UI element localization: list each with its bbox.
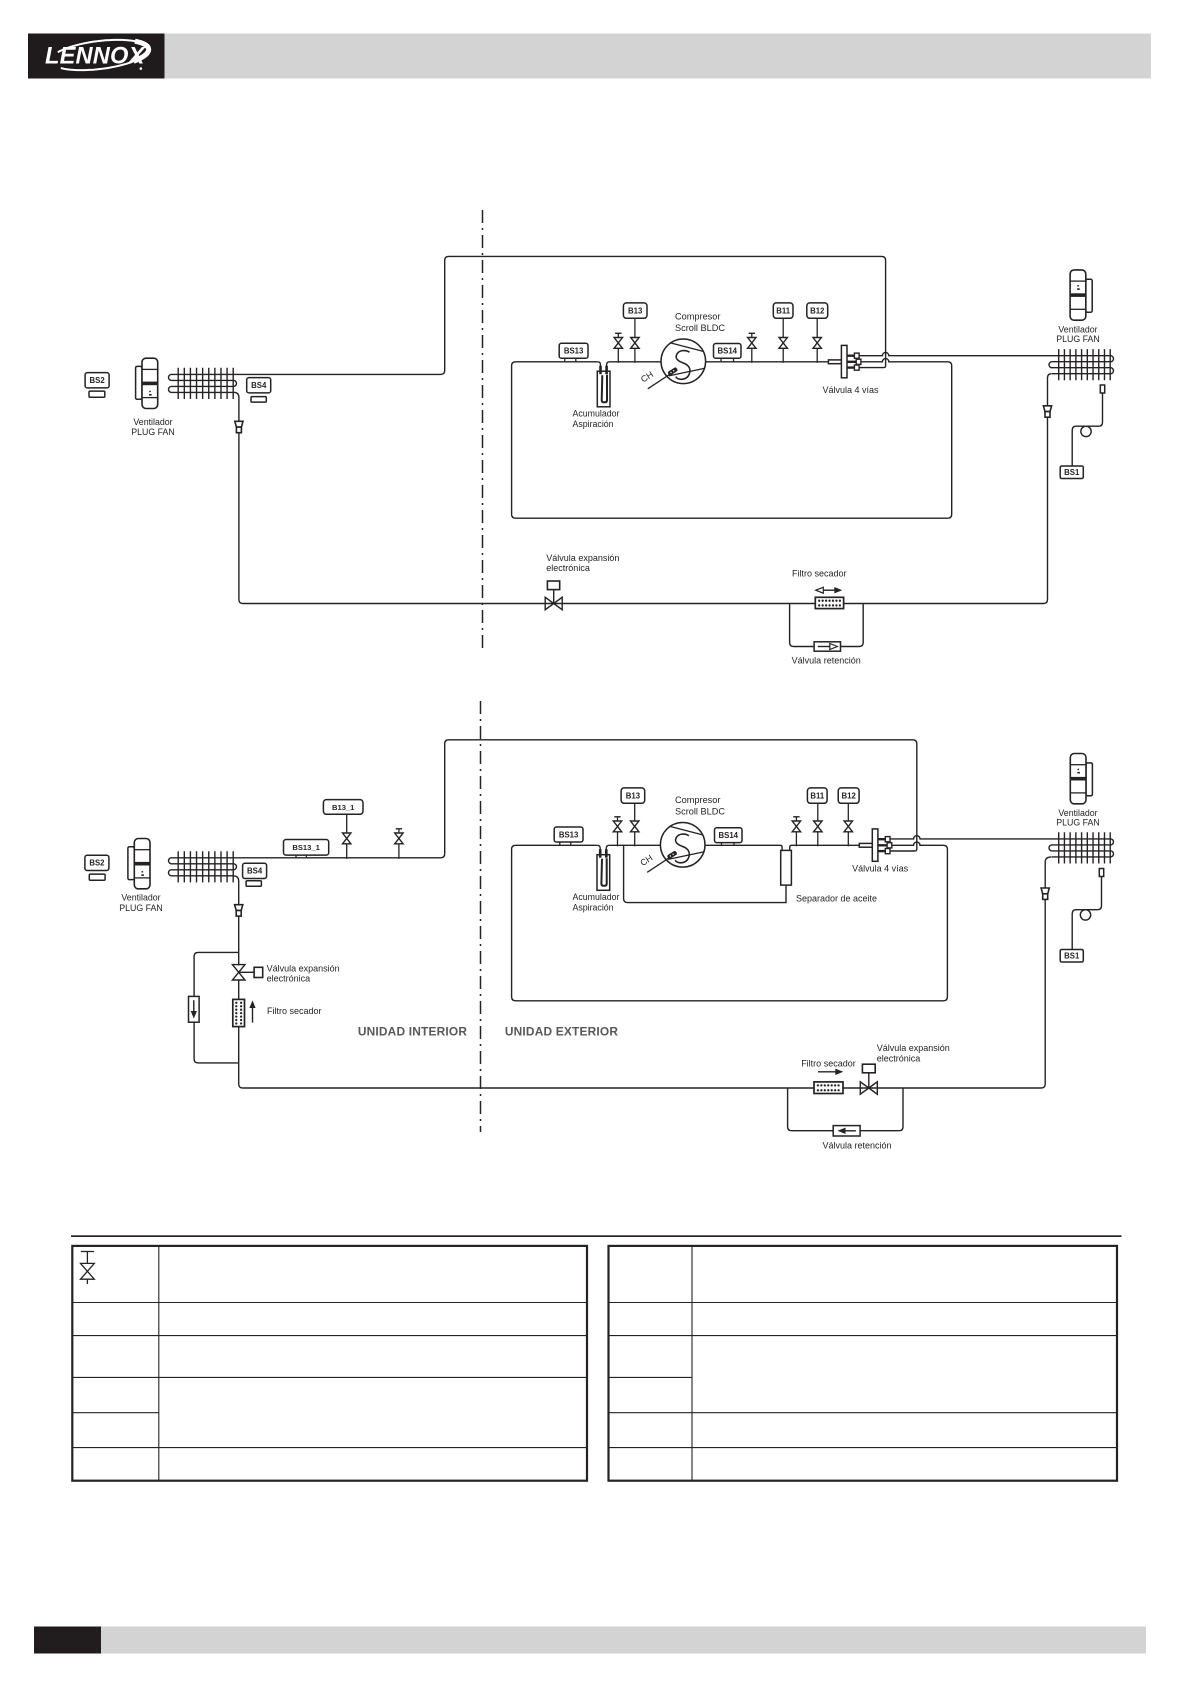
- svg-text:Válvula expansión: Válvula expansión: [546, 553, 619, 563]
- accumulator (suction accumulator, bottom diagram): [597, 845, 610, 890]
- svg-text:Válvula retención: Válvula retención: [822, 1141, 891, 1151]
- svg-text:BS1: BS1: [1064, 952, 1080, 961]
- oil separator (bottom): [781, 850, 792, 885]
- distributor funnel (indoor liquid line, bottom): [235, 905, 243, 916]
- valve B12 stem+bowtie (bottom): [844, 803, 852, 846]
- svg-text:BS13_1: BS13_1: [292, 843, 320, 852]
- sensor box B11 (top): [773, 303, 793, 318]
- legend symbol: service valve in left table: [81, 1252, 95, 1285]
- svg-text:BS14: BS14: [718, 831, 738, 840]
- fan outdoor Plug Fan (bottom): [1070, 754, 1092, 804]
- sensor box BS4 (bottom): [243, 863, 267, 886]
- 4-way reversing valve (bottom): [859, 829, 892, 861]
- outdoor coil (bottom diagram): [1049, 832, 1114, 863]
- fan indoor Plug Fan (top): [136, 358, 158, 408]
- sensor box B13 (bottom): [621, 788, 645, 803]
- svg-text:electrónica: electrónica: [267, 974, 311, 984]
- svg-text:BS1: BS1: [1064, 468, 1080, 477]
- electronic expansion valve (top, on liquid line): [545, 581, 562, 610]
- wire: oil return line from separator to suction line: [624, 845, 786, 902]
- wire: check valve bypass around indoor EEV+filter (bottom): [194, 952, 239, 1063]
- svg-text:Filtro secador: Filtro secador: [267, 1006, 322, 1016]
- svg-text:B13_1: B13_1: [332, 803, 355, 812]
- wire: EEV to filter drier (bottom indoor): [238, 980, 240, 1000]
- svg-text:Válvula retención: Válvula retención: [792, 655, 861, 665]
- sensor box BS2 (top): [85, 373, 109, 398]
- footer grey bar: [101, 1627, 1146, 1654]
- svg-text:UNIDAD INTERIOR: UNIDAD INTERIOR: [358, 1025, 468, 1039]
- wire: liquid line bottom loop (outdoor to indoor): [239, 417, 1048, 603]
- svg-text:B11: B11: [810, 791, 825, 800]
- check valve (bottom indoor bypass, vertical): [189, 996, 200, 1022]
- wire: accumulator to compressor suction (bottom): [609, 844, 660, 846]
- dash-dot centerline (indoor/outdoor split, top diagram): [482, 210, 484, 651]
- sensor box BS2 (bottom): [85, 855, 109, 880]
- footer black page block: [34, 1627, 101, 1654]
- filter drier (top) with flow arrows: [815, 587, 843, 609]
- 4-way reversing valve (top): [828, 345, 861, 377]
- sensor box B11 (bottom): [807, 788, 827, 803]
- header grey bar: [164, 34, 1151, 79]
- service valve (suction, bottom): [613, 817, 621, 847]
- sensor BS1 pocket+capillary+bulb (top): [1072, 385, 1105, 466]
- legend table right: [609, 1246, 1118, 1481]
- sensor box BS4 (top): [247, 378, 271, 403]
- sensor box BS13_1 (bottom): [284, 840, 329, 858]
- compressor U1 scroll (bottom): [660, 823, 705, 868]
- svg-text:Filtro secador: Filtro secador: [792, 568, 847, 578]
- compressor U1 scroll (top): [661, 339, 706, 384]
- valve B12 stem+bowtie (top): [813, 318, 821, 363]
- svg-text:BS2: BS2: [90, 376, 106, 385]
- crankcase heater CH (top): [639, 367, 678, 389]
- svg-text:Scroll BLDC: Scroll BLDC: [675, 323, 725, 333]
- fan outdoor Plug Fan (top): [1070, 270, 1092, 320]
- check valve (bottom outdoor bypass): [833, 1126, 860, 1136]
- sensor box B13 (top): [623, 303, 647, 318]
- wire: indoor coil outlet down to funnel (bottom): [234, 876, 239, 905]
- sensor box BS13 (top): [559, 343, 588, 362]
- indoor coil (bottom diagram): [169, 851, 237, 882]
- wire: indoor coil outlet down to funnel: [234, 392, 239, 421]
- filter drier (bottom outdoor) with flow arrow: [814, 1069, 843, 1094]
- electronic expansion valve (bottom indoor, on vertical line): [232, 965, 262, 980]
- wire: oil separator outlet to 4-way valve (bottom): [790, 845, 860, 850]
- horizontal rule above tables: [71, 1235, 1122, 1237]
- sensor box BS13 (bottom): [554, 827, 583, 845]
- svg-text:UNIDAD EXTERIOR: UNIDAD EXTERIOR: [505, 1025, 619, 1039]
- svg-text:Válvula 4 vías: Válvula 4 vías: [823, 385, 880, 395]
- svg-text:electrónica: electrónica: [546, 563, 590, 573]
- dash-dot centerline (indoor/outdoor split, bottom diagram): [480, 701, 482, 1132]
- sensor box B13_1 (bottom): [323, 800, 363, 815]
- svg-text:B12: B12: [810, 306, 825, 315]
- sensor box BS1 (bottom): [1060, 950, 1083, 963]
- svg-text:BS4: BS4: [251, 381, 267, 390]
- svg-text:PLUG FAN: PLUG FAN: [1056, 334, 1100, 344]
- crankcase heater CH (bottom): [638, 850, 677, 872]
- wire: check valve bypass around filter drier (top): [790, 604, 864, 647]
- service valve (discharge, bottom): [792, 817, 800, 847]
- sensor box B12 (top): [807, 303, 828, 318]
- svg-text:Válvula expansión: Válvula expansión: [877, 1043, 950, 1053]
- svg-text:Filtro secador: Filtro secador: [801, 1058, 856, 1068]
- wire: 4-way valve port 1 to outdoor coil (bottom, with crossover hop): [890, 836, 1052, 839]
- wire: liquid line bottom loop (bottom diagram): [239, 899, 1045, 1088]
- service valve (indoor line, bottom): [395, 829, 403, 859]
- svg-text:BS14: BS14: [717, 347, 737, 356]
- fan indoor Plug Fan (bottom): [128, 839, 150, 889]
- check valve (top bypass): [814, 642, 840, 651]
- svg-text:Scroll BLDC: Scroll BLDC: [675, 806, 725, 816]
- wire: indoor suction line with shutoff valves up over top loop to 4-way valve port 3 (bottom): [234, 740, 917, 858]
- svg-text:PLUG FAN: PLUG FAN: [119, 903, 163, 913]
- svg-text:Separador de aceite: Separador de aceite: [796, 894, 877, 904]
- sensor BS1 pocket+capillary+bulb (bottom): [1072, 869, 1104, 950]
- wire: 4-way valve port 2 suction return loop to accumulator line (with crossover hop): [512, 359, 952, 519]
- svg-text:BS2: BS2: [89, 859, 105, 868]
- valve B11 stem+bowtie (top): [779, 318, 787, 363]
- distributor funnel (outdoor side, bottom): [1041, 888, 1049, 899]
- svg-text:Compresor: Compresor: [675, 311, 720, 321]
- wire: funnel to electronic expansion valve (bottom indoor): [238, 916, 240, 965]
- valve B11 stem+bowtie (bottom): [814, 803, 822, 846]
- wire: suction line from indoor coil up over top loop to 4-way valve port 3: [234, 256, 886, 374]
- wire: outdoor coil liquid line down to bottom line: [1048, 374, 1052, 406]
- svg-text:PLUG FAN: PLUG FAN: [1056, 817, 1100, 827]
- svg-text:B11: B11: [776, 306, 791, 315]
- legend table left: [72, 1246, 587, 1481]
- distributor funnel (indoor side, top): [235, 421, 243, 432]
- Lennox logo: [28, 34, 165, 79]
- distributor funnel (outdoor side, top): [1043, 406, 1051, 417]
- svg-text:Válvula expansión: Válvula expansión: [267, 964, 340, 974]
- svg-text:B13: B13: [628, 306, 643, 315]
- svg-text:Acumulador: Acumulador: [573, 892, 620, 902]
- svg-text:LENNOX: LENNOX: [45, 44, 146, 70]
- svg-text:Ventilador: Ventilador: [133, 417, 172, 427]
- wire: compressor discharge to 4-way valve: [706, 361, 829, 363]
- service valve (suction, top): [614, 333, 622, 363]
- svg-text:BS4: BS4: [247, 867, 263, 876]
- svg-text:B13: B13: [626, 791, 641, 800]
- valve B13 stem+bowtie (top): [631, 318, 639, 363]
- svg-text:Aspiración: Aspiración: [573, 419, 614, 429]
- sensor box BS14 (top): [714, 344, 742, 362]
- svg-text:B12: B12: [841, 791, 856, 800]
- electronic expansion valve (bottom outdoor): [860, 1064, 877, 1094]
- outdoor coil (condenser, top diagram): [1049, 349, 1114, 380]
- sensor box BS1 (top): [1060, 466, 1083, 479]
- wire: accumulator to compressor suction: [610, 361, 662, 363]
- svg-text:PLUG FAN: PLUG FAN: [131, 427, 175, 437]
- svg-text:BS13: BS13: [564, 347, 584, 356]
- svg-text:Acumulador: Acumulador: [573, 409, 620, 419]
- wire: compressor discharge into oil separator (bottom): [705, 845, 782, 850]
- indoor coil (evaporator, top diagram): [169, 368, 237, 399]
- svg-text:electrónica: electrónica: [877, 1053, 921, 1063]
- valve B13 stem+bowtie (bottom): [631, 803, 639, 846]
- svg-text:Válvula 4 vías: Válvula 4 vías: [852, 863, 909, 873]
- sensor box B12 (bottom): [838, 788, 859, 803]
- svg-text:Aspiración: Aspiración: [573, 903, 614, 913]
- service valve (discharge, top): [748, 333, 756, 363]
- wire: 4-way valve port 1 to outdoor coil (with crossover hop): [859, 353, 1052, 356]
- valve B13_1 stem+bowtie (bottom): [343, 814, 351, 859]
- filter drier (bottom indoor, vertical): [233, 999, 256, 1026]
- wire: 4-way valve port 2 suction return loop to accumulator line (bottom, with crossover hop): [512, 842, 948, 1001]
- svg-text:BS13: BS13: [559, 830, 579, 839]
- wire: outdoor coil liquid line down to funnel (bottom): [1045, 857, 1052, 888]
- svg-text:Compresor: Compresor: [675, 795, 720, 805]
- svg-text:Ventilador: Ventilador: [121, 892, 160, 902]
- accumulator (suction accumulator, top diagram): [597, 362, 610, 407]
- wire: check valve bypass (bottom outdoor): [788, 1088, 903, 1131]
- sensor box BS14 (bottom): [715, 828, 743, 846]
